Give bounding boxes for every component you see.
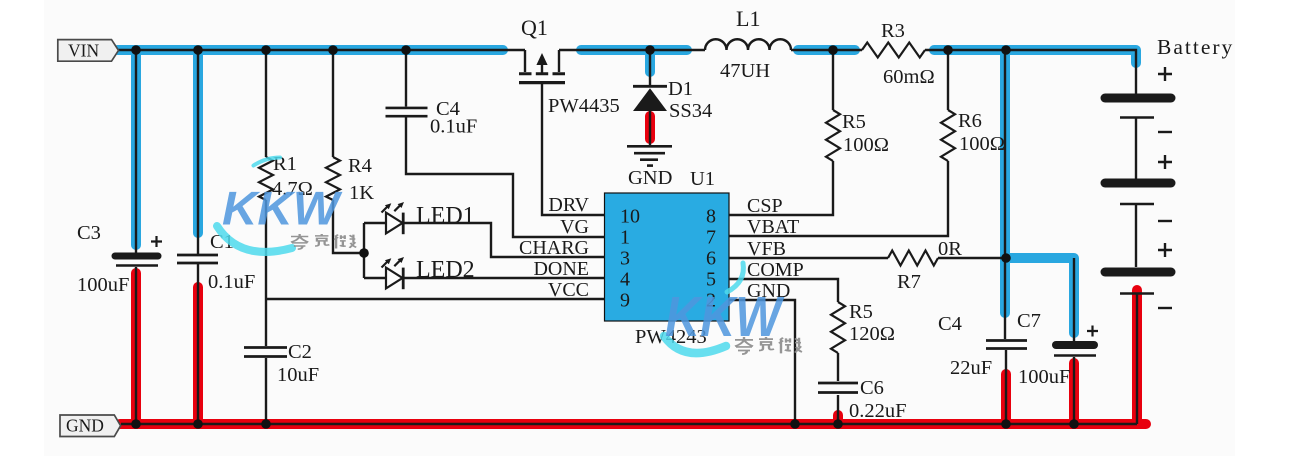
svg-text:47UH: 47UH xyxy=(720,60,770,82)
node VIN/C4 xyxy=(401,45,411,55)
svg-text:DONE: DONE xyxy=(533,258,589,280)
node GND/C4b xyxy=(1001,419,1011,429)
svg-text:PW4435: PW4435 xyxy=(548,95,620,117)
node R3/R6 xyxy=(943,45,953,55)
svg-text:R3: R3 xyxy=(881,20,905,42)
svg-text:0.1uF: 0.1uF xyxy=(208,271,255,293)
svg-text:4: 4 xyxy=(620,269,630,291)
LED LED1 xyxy=(382,202,405,234)
svg-text:LED2: LED2 xyxy=(416,257,475,283)
wire R4 column top xyxy=(332,50,334,157)
wire blue segment D (R3 to battery) xyxy=(934,50,1136,63)
wire C4 to VG xyxy=(406,118,605,238)
node GND port tag xyxy=(60,415,121,437)
svg-text:COMP: COMP xyxy=(747,259,804,281)
capacitor C6 plates xyxy=(818,382,858,385)
wire COMP to R5b xyxy=(729,279,838,302)
wire battery bottom lead xyxy=(1136,294,1138,424)
wire R5 bottom to CSP xyxy=(729,161,833,215)
wire LED2 anode xyxy=(364,277,386,279)
svg-text:SS34: SS34 xyxy=(669,100,712,122)
wire GND rail red xyxy=(120,419,1146,429)
wire red C4b drop xyxy=(1001,374,1011,424)
svg-text:10uF: 10uF xyxy=(277,364,319,386)
inductor L1 xyxy=(705,39,791,50)
wire VFB to R7 to VBAT column xyxy=(729,257,1006,259)
wire bottom rail GND xyxy=(121,423,1137,425)
watermark KKW left xyxy=(217,158,356,252)
diode D1 SS34 xyxy=(633,86,667,111)
capacitor C2 plates xyxy=(244,346,287,349)
svg-text:0R: 0R xyxy=(938,238,962,260)
wire C4 top lead xyxy=(405,50,407,107)
node GND/pin2 xyxy=(790,419,800,429)
svg-text:0.22uF: 0.22uF xyxy=(849,400,907,422)
svg-text:VBAT: VBAT xyxy=(747,216,799,238)
svg-text:Battery: Battery xyxy=(1157,35,1234,59)
resistor R4 xyxy=(326,157,340,200)
svg-text:R6: R6 xyxy=(958,110,982,132)
node GND/C6 xyxy=(833,419,843,429)
svg-text:DRV: DRV xyxy=(548,194,589,216)
node GND/C3 xyxy=(131,419,141,429)
svg-text:R5: R5 xyxy=(842,111,866,133)
svg-text:6: 6 xyxy=(706,248,716,270)
ground symbol (D1) xyxy=(627,146,672,165)
wire red C7 drop xyxy=(1069,363,1079,424)
wire Q1 gate to DRV xyxy=(542,84,605,215)
wire blue segment C (L1 to R3) xyxy=(798,45,855,55)
battery polarity marks xyxy=(1158,67,1172,308)
wire blue C1 drop xyxy=(193,50,203,233)
svg-text:KKW: KKW xyxy=(222,183,343,236)
svg-text:L1: L1 xyxy=(736,6,760,31)
wire R5 top xyxy=(832,50,834,110)
wire R5b to C6 xyxy=(837,353,839,381)
wire VIN blue segment B (Q1 drain to L1) xyxy=(581,45,687,55)
LED LED2 xyxy=(382,257,405,289)
svg-text:U1: U1 xyxy=(690,168,715,190)
wire top rail right with battery drop xyxy=(559,50,1136,94)
svg-text:22uF: 22uF xyxy=(950,357,992,379)
svg-text:CSP: CSP xyxy=(747,195,783,217)
wire VIN rail blue segment A xyxy=(118,45,504,55)
svg-text:100uF: 100uF xyxy=(77,274,129,296)
wire red C6 stub xyxy=(833,415,843,424)
svg-text:10: 10 xyxy=(620,206,640,228)
C7 plus mark xyxy=(1087,326,1098,337)
svg-text:C4: C4 xyxy=(938,313,962,335)
resistor R3 xyxy=(862,43,925,58)
svg-text:1: 1 xyxy=(620,227,630,249)
svg-text:60mΩ: 60mΩ xyxy=(883,66,935,88)
wire blue VBAT column xyxy=(1000,50,1010,313)
svg-text:R7: R7 xyxy=(897,271,921,293)
node VFB/BAT xyxy=(1001,253,1011,263)
battery cells xyxy=(1105,98,1171,294)
wire C7 bottom lead xyxy=(1073,357,1075,424)
svg-text:R5: R5 xyxy=(849,301,873,323)
svg-text:LED1: LED1 xyxy=(416,203,475,229)
node GND/C1 xyxy=(193,419,203,429)
op-amp U1 (IC PW4243 body) xyxy=(605,193,730,321)
resistor R5b 120 xyxy=(831,302,845,353)
svg-text:Q1: Q1 xyxy=(521,15,548,40)
transistor Q1 (PMOS PW4435) xyxy=(519,50,565,83)
svg-text:VCC: VCC xyxy=(548,279,589,301)
svg-text:1K: 1K xyxy=(349,182,374,204)
svg-text:100Ω: 100Ω xyxy=(843,134,889,156)
resistor R7 xyxy=(888,251,938,266)
svg-text:D1: D1 xyxy=(668,78,693,100)
node BAT top xyxy=(1001,45,1011,55)
node VIN port tag xyxy=(58,40,119,62)
svg-text:GND: GND xyxy=(66,416,104,436)
watermark KKW right xyxy=(664,263,802,354)
node LED common xyxy=(359,248,369,258)
wire R1 column top xyxy=(265,50,267,157)
svg-text:0.1uF: 0.1uF xyxy=(430,116,477,138)
node GND/C2 xyxy=(261,419,271,429)
C3 plus mark xyxy=(151,236,162,247)
svg-text:100uF: 100uF xyxy=(1018,366,1070,388)
capacitor C4 plates (top) xyxy=(386,107,428,110)
capacitor C3 plates xyxy=(115,253,158,260)
capacitor C4b plates (22uF) xyxy=(986,339,1027,342)
wire blue C3 drop xyxy=(131,50,141,245)
wire top rail left xyxy=(118,49,525,51)
svg-text:C6: C6 xyxy=(860,377,884,399)
node SW/D1 xyxy=(645,45,655,55)
wire C6 to rail xyxy=(837,395,839,424)
svg-text:7: 7 xyxy=(706,227,716,249)
svg-text:C2: C2 xyxy=(288,341,312,363)
svg-text:120Ω: 120Ω xyxy=(849,323,895,345)
wire D1 column xyxy=(649,50,651,145)
resistor R5 xyxy=(826,110,840,161)
wire LED1 anode xyxy=(364,222,386,224)
node VIN/C3 xyxy=(131,45,141,55)
capacitor C1 plates xyxy=(177,254,218,257)
wire LED1 cathode to CHARG xyxy=(403,223,605,257)
resistor R1 xyxy=(259,157,273,200)
svg-text:VIN: VIN xyxy=(68,41,99,61)
wire LED node vertical xyxy=(363,223,365,278)
wire R1 to VCC and C2 xyxy=(265,200,267,424)
resistor R6 xyxy=(941,110,955,161)
node VIN/C1 xyxy=(193,45,203,55)
svg-text:VG: VG xyxy=(560,216,589,238)
wire blue branch to C7 xyxy=(1005,258,1074,333)
wire red C1 drop xyxy=(193,287,203,424)
wire red battery drop xyxy=(1132,290,1142,424)
wire R6 top xyxy=(947,50,949,110)
wire C3 column xyxy=(135,50,137,424)
svg-text:C7: C7 xyxy=(1017,310,1041,332)
wire R4 to LED node xyxy=(333,200,364,253)
wire GND pin2 to rail xyxy=(729,300,795,424)
wire VCC line xyxy=(266,298,605,300)
svg-text:3: 3 xyxy=(620,248,630,270)
svg-text:C3: C3 xyxy=(77,222,101,244)
svg-text:VFB: VFB xyxy=(747,238,786,260)
wire red D1-GND stub xyxy=(645,116,655,139)
svg-text:GND: GND xyxy=(628,167,672,189)
svg-text:R4: R4 xyxy=(348,155,372,177)
svg-text:8: 8 xyxy=(706,206,716,228)
node L1/R3/R5 xyxy=(828,45,838,55)
wire R6 bottom to VBAT xyxy=(729,161,948,236)
wire LED2 cathode to DONE xyxy=(403,277,605,279)
node VIN/R4 xyxy=(328,45,338,55)
svg-text:CHARG: CHARG xyxy=(519,237,589,259)
wire blue D1 stub xyxy=(645,50,655,72)
node GND/C7 xyxy=(1069,419,1079,429)
wire C4b column xyxy=(1005,50,1006,424)
wire red C3 drop xyxy=(131,273,141,424)
wire C7 lead top xyxy=(1073,258,1075,342)
capacitor C7 plates (100uF polarized) xyxy=(1056,341,1094,349)
svg-text:9: 9 xyxy=(620,290,630,312)
wire C1 column xyxy=(197,50,199,424)
svg-text:100Ω: 100Ω xyxy=(959,133,1005,155)
node VIN/R1 xyxy=(261,45,271,55)
